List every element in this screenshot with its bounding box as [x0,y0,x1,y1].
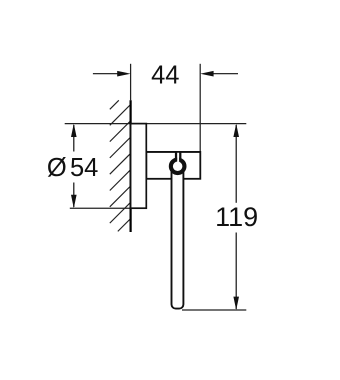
wall plate (escutcheon, side view) [131,124,147,209]
dim dia54: vertical line segments [73,125,75,152]
roll holder loop (tube) [172,168,184,309]
dim 119: down arrow [233,297,239,310]
extension line top (shared by dia-54 and 119 dims) [65,123,247,125]
dim 119: up arrow [233,124,239,137]
dim 119: vertical line segments [235,125,237,203]
loop eye (hook around pin) [171,160,185,174]
wall face line [130,100,132,232]
pin left bar [175,152,177,161]
extension line plate bottom [70,207,147,209]
dim dia54: up arrow [71,124,77,137]
dim dia54: down arrow [71,195,77,208]
svg-text:119: 119 [215,202,258,232]
arm top line redraw [146,151,200,153]
extension line 44-left (above wall) [130,64,132,101]
svg-text:Ø: Ø [47,154,67,182]
wall hatching [110,100,131,231]
svg-text:44: 44 [151,62,179,90]
dim 44: left tail+arrow [93,71,131,77]
extension line 44-right (down to arm) [199,64,201,152]
svg-text:54: 54 [70,154,98,182]
pin gap [177,152,179,162]
pin right bar [179,152,181,161]
dim 44: right tail+arrow [200,71,238,77]
arm (holder bracket) [146,152,200,179]
extension line ring bottom [182,309,246,311]
